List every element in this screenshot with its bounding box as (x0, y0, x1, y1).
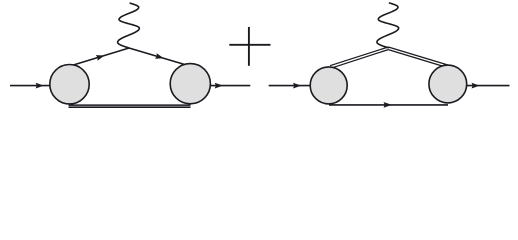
plus sign vertical bar (248, 27, 250, 66)
arrow on bottom spectator line (right diagram) (384, 102, 392, 108)
blob (left diagram, left) (50, 65, 89, 104)
incoming fermion line (right diagram) (269, 85, 311, 87)
outgoing fermion line (right diagram) (467, 85, 510, 87)
arrow on incoming fermion line (right diagram) (293, 83, 301, 89)
photon wavy line (right diagram) (377, 3, 399, 48)
photon wavy line (left diagram) (118, 3, 140, 48)
blob (right diagram, left) (310, 67, 347, 104)
incoming fermion line (left diagram) (10, 85, 51, 87)
arrow on outgoing fermion line (215, 83, 223, 89)
outgoing fermion line (left diagram) (210, 85, 250, 87)
spectator single line (right diagram, bottom) (329, 104, 448, 106)
upper-right double line from photon vertex (right diagram) (388, 47, 448, 68)
arrow on upper-right fermion line (155, 53, 165, 61)
plus sign between diagrams: horizontal bar (229, 44, 270, 46)
arrow on outgoing fermion line (right diagram) (472, 83, 480, 89)
blob (right diagram, right) (429, 65, 467, 103)
arrow on incoming fermion line (36, 83, 44, 89)
blob (left diagram, right) (170, 64, 210, 104)
spectator double line (left diagram, bottom) lower line (69, 106, 191, 108)
spectator double line (left diagram, bottom) upper line (69, 104, 191, 106)
upper-right fermion line from photon vertex (129, 48, 191, 66)
upper-left fermion line to photon vertex (68, 48, 129, 67)
arrow on upper-left fermion line (96, 53, 106, 61)
upper-left double line to photon vertex (right diagram) (330, 47, 388, 68)
